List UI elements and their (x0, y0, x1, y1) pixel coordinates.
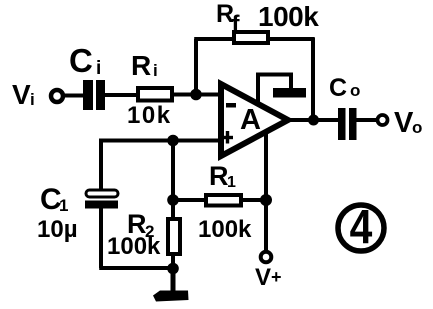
svg-text:10µ: 10µ (37, 216, 78, 243)
plus sign (226, 131, 229, 144)
node plus input junction (167, 135, 179, 147)
svg-text:100k: 100k (107, 233, 161, 260)
svg-text:i: i (153, 61, 158, 80)
resistor R1 (206, 195, 241, 206)
wire C1 down (99, 208, 103, 268)
svg-text:f: f (232, 11, 241, 38)
svg-text:V: V (12, 79, 31, 110)
ground (171, 268, 176, 292)
svg-text:100k: 100k (198, 216, 252, 243)
wire vertical rail to R2 (171, 141, 175, 221)
svg-text:10k: 10k (127, 102, 172, 129)
svg-text:C: C (69, 42, 93, 79)
wire down-left to C1 (99, 139, 103, 191)
terminal Vi (51, 90, 63, 102)
svg-text:o: o (350, 81, 360, 100)
capacitor C1 top plate (86, 190, 118, 197)
wire R1 right (242, 198, 266, 202)
terminal V+ (261, 252, 272, 263)
wire R2 to ground node (171, 256, 175, 268)
wire feedback top horizontal (194, 37, 314, 41)
comp terminal stem (258, 75, 291, 104)
wire plus input (101, 139, 222, 143)
svg-text:4: 4 (350, 201, 373, 254)
node A (inverting input junction) (190, 89, 202, 101)
terminal Vo (378, 115, 388, 125)
svg-text:i: i (30, 90, 35, 109)
svg-text:R: R (131, 50, 151, 81)
capacitor Co (338, 108, 346, 140)
op-amp A (221, 84, 288, 156)
svg-text:100k: 100k (258, 1, 319, 32)
node output junction (308, 115, 319, 126)
wire feedback left vertical (194, 39, 198, 95)
svg-text:o: o (412, 118, 422, 137)
resistor Ri (138, 88, 172, 101)
capacitor C1 bottom plate (85, 201, 118, 209)
svg-text:i: i (96, 58, 101, 79)
comp terminal bar (273, 88, 306, 98)
svg-text:A: A (240, 104, 261, 136)
wire Ci to Ri (105, 93, 137, 97)
svg-text:1: 1 (227, 174, 236, 191)
minus sign (226, 103, 236, 108)
svg-text:+: + (271, 267, 282, 287)
wire feedback right vertical (311, 37, 315, 120)
svg-text:C: C (329, 74, 347, 102)
resistor R2 (168, 219, 180, 254)
svg-text:V: V (255, 264, 271, 291)
wire op-amp bottom to V+ (264, 132, 268, 252)
capacitor Ci (83, 80, 93, 110)
resistor Rf (234, 32, 268, 43)
wire C1 bottom horizontal (99, 266, 173, 270)
wire Ri to op-amp minus input (172, 93, 222, 97)
wire Co to Vo terminal (356, 118, 377, 122)
svg-text:1: 1 (59, 196, 68, 215)
wire R1 left (173, 198, 205, 202)
node R1 left junction (167, 194, 179, 206)
node ground junction (167, 263, 179, 275)
figure number 4 (338, 205, 384, 251)
node R1 right junction (260, 194, 272, 206)
svg-text:R: R (209, 161, 229, 191)
svg-text:V: V (394, 107, 414, 139)
wire op-amp output (289, 118, 338, 122)
wire Vi to Ci (64, 94, 84, 98)
